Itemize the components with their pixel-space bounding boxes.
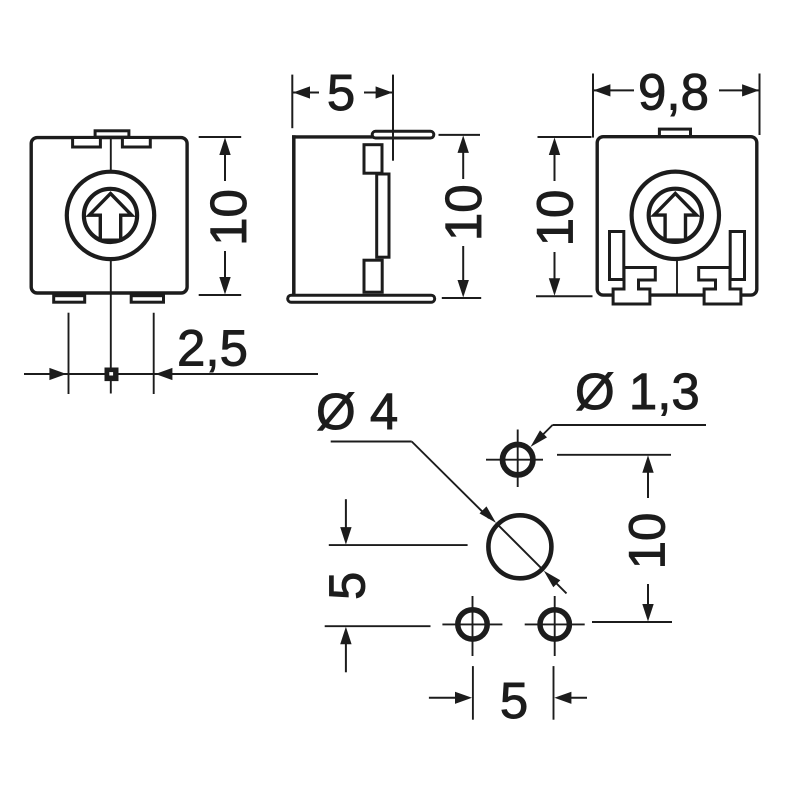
footprint bottom pitch extension lines	[472, 666, 474, 720]
footprint bottom pitch right-pointing arrow	[455, 692, 472, 704]
front top notch right	[122, 138, 150, 148]
svg-text:2,5: 2,5	[177, 319, 248, 376]
back height dim top extension line	[538, 136, 592, 138]
front pin pitch center square	[105, 368, 119, 382]
svg-text:10: 10	[200, 189, 257, 246]
front pin pitch left-pointing arrow	[155, 368, 172, 380]
footprint vertical pitch down arrow	[642, 604, 653, 622]
svg-text:10: 10	[527, 190, 584, 247]
back height dim bottom extension line	[536, 295, 593, 297]
front height dim bottom extension line	[199, 294, 242, 296]
back width dim right extension line	[759, 74, 761, 136]
back width dim line segments	[593, 89, 634, 91]
leader line for diameter 1,3	[553, 424, 707, 426]
side height dim up arrow	[458, 135, 469, 153]
front top tab	[95, 131, 129, 137]
side height dim top extension line	[439, 134, 481, 136]
back left clip body	[613, 268, 655, 305]
back view top tab	[659, 129, 690, 136]
svg-text:Ø 1,3: Ø 1,3	[575, 363, 700, 420]
front pin pitch dim line	[24, 373, 318, 375]
back width right-pointing arrow	[742, 84, 759, 96]
footprint center hole	[488, 515, 551, 578]
front knob arrow	[89, 194, 131, 241]
back left clip arm	[610, 232, 624, 280]
back right clip arm	[730, 232, 744, 280]
svg-text:5: 5	[319, 572, 376, 600]
footprint bottom pitch left-pointing arrow	[554, 692, 571, 704]
front bottom tab right	[131, 296, 163, 303]
back knob inner circle	[649, 189, 702, 242]
footprint offset dim bottom extension	[325, 625, 431, 627]
side depth dim right extension line	[392, 75, 394, 161]
back view center line below knob	[676, 258, 678, 294]
footprint vertical pitch up arrow	[642, 455, 653, 473]
front knob inner circle	[84, 189, 137, 242]
front pin pitch extension line right	[153, 313, 155, 394]
footprint top hole	[503, 445, 533, 475]
footprint offset dim top extension	[329, 544, 468, 546]
front pin pitch right-pointing arrow	[49, 368, 66, 380]
front height dim top extension line	[199, 136, 242, 138]
front pin pitch extension line left	[68, 313, 70, 394]
side view right bar	[377, 174, 389, 257]
svg-text:10: 10	[435, 184, 492, 241]
back right clip body	[699, 268, 741, 305]
front height dim down arrow	[219, 277, 230, 295]
svg-text:5: 5	[327, 64, 355, 121]
side view top pin	[364, 145, 382, 174]
footprint offset dim bottom arrow	[340, 627, 351, 645]
footprint bottom hole left	[458, 610, 487, 639]
side depth right-pointing arrow	[376, 86, 393, 98]
back knob outer circle	[632, 172, 719, 259]
footprint vertical pitch dim top extension	[557, 454, 671, 456]
front knob outer circle	[67, 172, 154, 259]
back width dim left extension line	[592, 74, 594, 138]
front height dim up arrow	[219, 138, 230, 156]
back view body	[597, 137, 757, 295]
front bottom tab left	[54, 296, 85, 303]
svg-text:10: 10	[619, 513, 676, 570]
front top notch left	[73, 138, 101, 148]
footprint vertical pitch dim bottom extension	[592, 621, 672, 623]
side view bottom flange	[288, 295, 435, 302]
back knob arrow	[654, 193, 696, 240]
side height dim bottom extension line	[442, 297, 481, 299]
side view top flange	[372, 131, 434, 138]
side depth dim line segments	[293, 92, 319, 94]
svg-text:5: 5	[500, 672, 528, 729]
leader line for diameter 4	[331, 441, 412, 443]
front view center line	[110, 138, 112, 394]
side depth left-pointing arrow	[293, 86, 310, 98]
side view top edge	[292, 135, 390, 138]
footprint bottom hole right	[540, 610, 569, 639]
svg-text:Ø 4: Ø 4	[316, 383, 398, 440]
side depth dim left extension line	[291, 75, 293, 129]
side view left edge	[292, 135, 296, 294]
svg-text:9,8: 9,8	[638, 64, 709, 121]
back height dim down arrow	[549, 278, 560, 296]
footprint bottom pitch dim line segments	[429, 697, 460, 699]
back height dim up arrow	[549, 138, 560, 156]
back width left-pointing arrow	[593, 84, 610, 96]
footprint center hole diagonal	[496, 523, 544, 571]
side height dim down arrow	[458, 280, 469, 298]
side view bottom pin	[364, 260, 382, 292]
footprint offset dim top arrow	[340, 527, 351, 545]
front view body	[31, 138, 187, 293]
center hole second arrow	[544, 571, 561, 588]
footprint top hole crosshair	[486, 459, 543, 461]
